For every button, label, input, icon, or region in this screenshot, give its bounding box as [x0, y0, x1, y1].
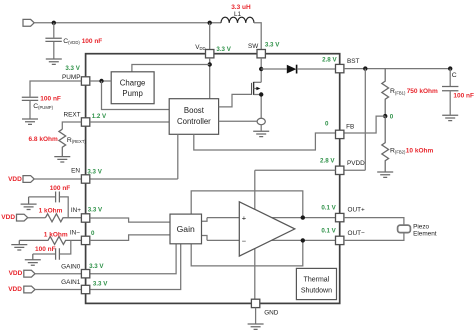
svg-text:1 kOhm: 1 kOhm	[39, 208, 63, 215]
node junction BST branch	[363, 66, 367, 70]
resistor RREXT	[59, 129, 66, 156]
svg-text:GAIN0: GAIN0	[61, 263, 81, 270]
svg-text:Gain: Gain	[177, 224, 195, 234]
wire flag to RIN+	[28, 217, 46, 219]
svg-text:0: 0	[325, 120, 329, 127]
node junction SW	[259, 67, 263, 71]
wire top rail	[34, 22, 221, 24]
wire gate from boost controller	[219, 94, 252, 107]
svg-text:3.3 V: 3.3 V	[89, 263, 104, 270]
svg-text:SW: SW	[248, 43, 259, 50]
wire gain to op-amp (+) and OUT+	[202, 218, 336, 222]
wire GND pin to ground	[255, 308, 257, 324]
svg-text:GND: GND	[264, 309, 279, 316]
wire inductor to SW	[254, 23, 261, 50]
wire BST to PVDD	[344, 69, 365, 171]
wire PVDD to amplifier	[255, 170, 336, 299]
pin VDD	[206, 50, 214, 58]
svg-text:OUT+: OUT+	[348, 207, 365, 214]
node junction internal VDD	[208, 62, 212, 66]
node junction OUT- feedback	[301, 238, 305, 242]
svg-text:Thermal: Thermal	[304, 277, 330, 284]
supply flag (top left)	[23, 19, 34, 26]
capacitor CVDD	[45, 23, 61, 59]
svg-text:Shutdown: Shutdown	[301, 288, 332, 295]
wire gain to op-amp (-) and OUT-	[202, 236, 336, 241]
svg-text:OUT−: OUT−	[348, 230, 365, 237]
wire VDD riser	[209, 23, 211, 50]
svg-text:Pump: Pump	[122, 89, 143, 98]
svg-text:VDD: VDD	[9, 270, 23, 277]
svg-text:10 kOhm: 10 kOhm	[406, 147, 434, 154]
wire REXT to RREXT	[62, 122, 81, 129]
wire IN+ to gain	[90, 218, 170, 222]
wire PUMP to boost controller	[102, 81, 170, 110]
svg-text:IN−: IN−	[70, 229, 80, 236]
svg-text:PUMP: PUMP	[62, 74, 80, 81]
wire SW to diode	[261, 68, 287, 70]
pin IN+	[81, 214, 89, 222]
svg-text:100 nF: 100 nF	[82, 38, 103, 45]
svg-text:PVDD: PVDD	[347, 160, 365, 167]
svg-text:VDD: VDD	[1, 214, 15, 221]
wire PUMP to charge pump	[90, 80, 111, 82]
svg-text:C: C	[452, 72, 457, 79]
svg-text:3.3 V: 3.3 V	[216, 46, 231, 53]
pin PVDD	[336, 166, 344, 174]
wire internal VDD to boost controller	[209, 58, 211, 99]
capacitor 100 nF (IN-)	[33, 240, 71, 259]
pin PUMP	[81, 77, 89, 85]
pin EN	[81, 175, 89, 183]
node junction at output cap	[448, 66, 452, 70]
svg-text:Piezo: Piezo	[413, 223, 429, 230]
ground (RIN- input)	[11, 240, 27, 250]
capacitor C (output)	[442, 69, 458, 115]
resistor RFB2	[382, 116, 389, 172]
svg-text:0: 0	[91, 230, 95, 237]
node junction on rail at CVDD	[52, 21, 56, 25]
wire feedback loop lower	[191, 240, 303, 266]
wire OUT- to piezo	[344, 233, 404, 241]
svg-text:1.2 V: 1.2 V	[92, 113, 107, 120]
node junction at PUMP	[99, 79, 103, 83]
svg-text:2.8 V: 2.8 V	[320, 158, 335, 165]
pin OUT+	[336, 213, 344, 221]
svg-text:3.3 V: 3.3 V	[93, 281, 108, 288]
svg-text:VDD: VDD	[8, 286, 22, 293]
svg-text:3.3 V: 3.3 V	[87, 168, 102, 175]
svg-text:1 kOhm: 1 kOhm	[44, 232, 68, 239]
IC outline U1	[86, 54, 340, 304]
wire sense to boost controller	[219, 120, 258, 122]
wire REXT to boost controller	[90, 121, 169, 123]
block gain	[170, 214, 202, 244]
wire OUT+ to piezo	[344, 218, 404, 226]
capacitor 100 nF (IN+)	[29, 192, 69, 218]
capacitor CPUMP	[22, 97, 38, 118]
svg-text:FB: FB	[346, 124, 354, 131]
ground (IN+ cap)	[21, 197, 37, 210]
pin REXT	[81, 118, 89, 126]
svg-text:GAIN1: GAIN1	[61, 279, 81, 286]
wire SW node down	[260, 58, 262, 82]
op-amp A1	[239, 202, 294, 256]
svg-text:100 nF: 100 nF	[35, 246, 56, 253]
pin OUT-	[336, 236, 344, 244]
svg-text:L1: L1	[234, 11, 242, 18]
pin FB	[336, 130, 344, 138]
ground (below RFB2)	[377, 172, 393, 177]
pin IN-	[81, 236, 89, 244]
svg-text:+: +	[242, 213, 247, 222]
node junction on rail above VDD pin	[208, 21, 212, 25]
svg-text:Element: Element	[413, 231, 437, 238]
svg-text:Controller: Controller	[177, 117, 211, 126]
current sense element	[257, 118, 265, 124]
wire PUMP to CPUMP	[30, 81, 81, 97]
svg-text:3.3 V: 3.3 V	[265, 41, 280, 48]
pin GND	[251, 299, 259, 307]
svg-text:Boost: Boost	[184, 106, 205, 115]
ground (below RREXT)	[54, 157, 70, 162]
resistor 1 kOhm (IN-)	[19, 236, 81, 244]
svg-text:0.1 V: 0.1 V	[321, 205, 336, 212]
wire IN- to gain	[90, 235, 170, 241]
wire BST output rail	[344, 68, 450, 70]
wire sense to ground	[260, 125, 262, 131]
wire EN	[34, 134, 178, 179]
pin SW	[257, 50, 265, 58]
ground (GND pin)	[248, 324, 264, 329]
svg-text:Charge: Charge	[120, 78, 146, 87]
ground (below CVDD)	[46, 59, 62, 64]
pin GAIN0	[81, 270, 89, 278]
wire VDD to charge pump	[132, 65, 210, 72]
pin GAIN1	[81, 285, 89, 293]
svg-text:100 nF: 100 nF	[453, 93, 474, 100]
wire GAIN0	[35, 244, 176, 274]
diode D1	[287, 65, 336, 74]
resistor RFB1	[382, 69, 389, 117]
svg-text:REXT: REXT	[63, 112, 80, 119]
block thermal shutdown	[296, 268, 336, 299]
svg-text:−: −	[242, 237, 247, 246]
block charge pump	[111, 72, 154, 104]
svg-text:750 kOhm: 750 kOhm	[407, 88, 438, 95]
svg-text:3.3 V: 3.3 V	[88, 207, 103, 214]
ground (below FET)	[253, 131, 269, 136]
svg-text:IN+: IN+	[71, 207, 81, 214]
wire FB from boost controller	[194, 133, 336, 150]
svg-text:100 nF: 100 nF	[50, 185, 71, 192]
wire GAIN1	[35, 244, 181, 290]
piezo element	[398, 225, 411, 233]
block boost controller	[169, 99, 218, 135]
wire FB divider to FB pin	[344, 116, 385, 133]
wire feedback loop upper	[191, 191, 303, 218]
svg-text:100 nF: 100 nF	[40, 96, 61, 103]
node junction OUT+ feedback	[301, 215, 305, 219]
ground (below CPUMP)	[22, 119, 38, 124]
svg-text:0.1 V: 0.1 V	[321, 227, 336, 234]
svg-text:2.8 V: 2.8 V	[322, 57, 337, 64]
inductor L1	[221, 17, 254, 23]
svg-text:0: 0	[390, 113, 394, 120]
transistor M1 (boost FET)	[252, 82, 264, 118]
pin BST	[336, 64, 344, 72]
svg-text:VDD: VDD	[8, 176, 22, 183]
resistor 1 kOhm (IN+)	[45, 214, 81, 222]
svg-text:3.3 V: 3.3 V	[65, 65, 80, 72]
svg-text:6.8 kOhm: 6.8 kOhm	[29, 136, 58, 143]
ground (IN- cap)	[25, 254, 41, 265]
node junction FB divider	[383, 114, 387, 118]
ground (below output cap)	[442, 115, 458, 120]
svg-text:EN: EN	[71, 168, 80, 175]
svg-text:BST: BST	[347, 58, 360, 65]
